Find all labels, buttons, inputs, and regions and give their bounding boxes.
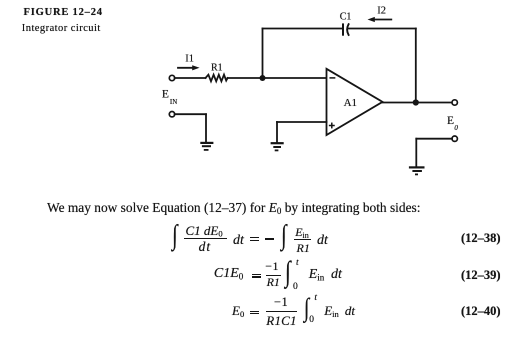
label C1 bbox=[340, 12, 352, 23]
dt after integral bbox=[345, 304, 355, 317]
denominator dt bbox=[199, 240, 212, 254]
wire op-amp output bbox=[383, 102, 453, 104]
svg-text:C1: C1 bbox=[340, 12, 352, 23]
numerator -1 bbox=[265, 260, 279, 272]
wire down to left ground bbox=[205, 114, 207, 142]
svg-text:I1: I1 bbox=[185, 53, 194, 64]
wire bottom output terminal to ground drop bbox=[416, 138, 452, 140]
numerator Ein bbox=[295, 226, 309, 238]
numerator C1 dE0 bbox=[186, 224, 223, 237]
node junction at output bbox=[413, 99, 419, 105]
dt after integral bbox=[331, 268, 342, 282]
svg-text:E: E bbox=[447, 115, 454, 127]
denominator R1 bbox=[267, 276, 280, 288]
input terminal Ein top bbox=[169, 75, 174, 80]
label I1 bbox=[185, 53, 194, 64]
ground left bbox=[200, 143, 213, 150]
wire resistor to op-amp inverting input bbox=[228, 77, 327, 79]
equation number 12-40 bbox=[461, 305, 501, 318]
integral upper limit t bbox=[314, 294, 317, 304]
equation number 12-39 bbox=[461, 269, 501, 282]
op-amp A1 bbox=[327, 69, 383, 135]
svg-text:0: 0 bbox=[454, 124, 458, 132]
denominator R1 bbox=[297, 242, 310, 254]
integral sign with limits bbox=[285, 258, 291, 287]
svg-text:IN: IN bbox=[170, 98, 177, 106]
equals minus bbox=[250, 237, 259, 238]
paragraph sentence bbox=[47, 201, 420, 214]
Ein dt bbox=[309, 268, 325, 282]
equals bbox=[252, 274, 261, 275]
equals bbox=[250, 311, 259, 312]
E0 bbox=[232, 304, 244, 317]
svg-text:R1: R1 bbox=[211, 63, 223, 74]
numerator -1 bbox=[274, 296, 288, 309]
resistor R1 bbox=[206, 75, 228, 82]
wire feedback top right segment bbox=[348, 28, 416, 30]
label I2 bbox=[377, 5, 386, 16]
minus sign bbox=[265, 238, 274, 240]
Ein dt bbox=[324, 304, 339, 317]
integral sign 1 bbox=[172, 222, 178, 250]
capacitor C1 bbox=[343, 24, 349, 35]
label R1 bbox=[211, 63, 223, 74]
integral sign 2 bbox=[281, 222, 287, 250]
label A1 bbox=[344, 97, 357, 109]
fraction bar 1 bbox=[184, 238, 227, 239]
output terminal Eo top bbox=[452, 100, 457, 105]
circuit schematic bbox=[0, 0, 514, 190]
node junction at feedback takeoff bbox=[260, 75, 266, 81]
wire noninverting input down to ground bbox=[276, 122, 278, 142]
integral lower limit 0 bbox=[293, 283, 298, 293]
C1E0 bbox=[214, 267, 243, 281]
dt after fraction 2 bbox=[317, 234, 328, 248]
svg-text:A1: A1 bbox=[344, 97, 357, 109]
ground middle bbox=[271, 143, 284, 150]
wire input terminal to resistor bbox=[175, 77, 206, 79]
equation number 12-38 bbox=[461, 232, 501, 245]
fraction bar bbox=[266, 311, 297, 312]
fraction bar bbox=[266, 275, 282, 276]
input terminal Ein bottom bbox=[169, 112, 174, 117]
label E o bbox=[447, 115, 458, 132]
integral lower limit 0 bbox=[309, 316, 314, 326]
pin label plus bbox=[330, 123, 334, 127]
wire feedback vertical down to output bbox=[415, 29, 417, 103]
dt after fraction bbox=[233, 234, 244, 248]
ground right bbox=[409, 167, 425, 174]
current arrow I1 bbox=[178, 65, 200, 70]
output terminal Eo bottom bbox=[452, 136, 457, 141]
wire feedback vertical up bbox=[262, 29, 264, 79]
denominator R1C1 bbox=[266, 314, 296, 327]
figure caption subtitle bbox=[22, 24, 101, 35]
integral upper limit t bbox=[296, 259, 299, 269]
pin label minus bbox=[330, 77, 334, 79]
integral sign with limits bbox=[304, 295, 309, 321]
figure caption title bbox=[24, 8, 103, 19]
fraction bar 2 bbox=[294, 239, 311, 240]
svg-text:E: E bbox=[162, 89, 169, 101]
label E IN bbox=[162, 89, 177, 107]
svg-text:I2: I2 bbox=[377, 5, 386, 16]
wire feedback top left segment bbox=[263, 28, 344, 30]
wire down to right ground bbox=[415, 139, 417, 167]
current arrow I2 bbox=[368, 17, 392, 22]
wire bottom input terminal to ground drop bbox=[175, 113, 206, 115]
wire op-amp noninverting input bbox=[277, 121, 327, 123]
